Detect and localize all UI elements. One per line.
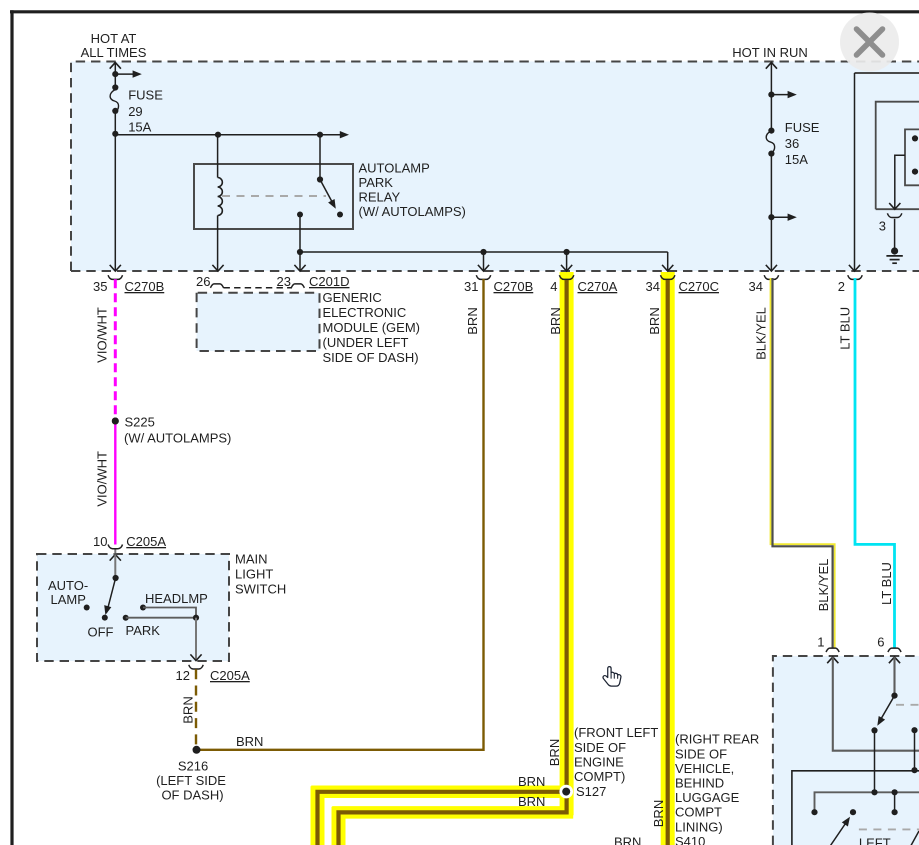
- svg-text:SIDE OF DASH): SIDE OF DASH): [323, 350, 419, 365]
- svg-text:12: 12: [176, 668, 190, 683]
- svg-text:2: 2: [838, 279, 845, 294]
- svg-text:BEHIND: BEHIND: [675, 776, 724, 791]
- svg-text:C270A: C270A: [578, 279, 618, 294]
- svg-text:LT BLU: LT BLU: [879, 562, 894, 605]
- svg-text:31: 31: [464, 279, 478, 294]
- svg-text:MODULE (GEM): MODULE (GEM): [323, 320, 421, 335]
- svg-text:34: 34: [646, 279, 660, 294]
- svg-text:LINING): LINING): [675, 819, 723, 834]
- svg-text:(W/ AUTOLAMPS): (W/ AUTOLAMPS): [359, 204, 466, 219]
- svg-text:BRN: BRN: [651, 800, 666, 827]
- svg-text:AUTOLAMP: AUTOLAMP: [359, 160, 430, 175]
- svg-text:BRN: BRN: [518, 774, 545, 789]
- svg-text:35: 35: [93, 279, 107, 294]
- svg-text:LUGGAGE: LUGGAGE: [675, 790, 740, 805]
- svg-text:HOT AT: HOT AT: [91, 31, 137, 46]
- svg-text:BLK/YEL: BLK/YEL: [816, 559, 831, 612]
- svg-text:BLK/YEL: BLK/YEL: [754, 307, 769, 360]
- svg-text:BRN: BRN: [614, 835, 641, 845]
- svg-text:BRN: BRN: [181, 696, 196, 723]
- svg-text:C205A: C205A: [210, 668, 250, 683]
- svg-text:6: 6: [877, 635, 884, 650]
- svg-text:(UNDER LEFT: (UNDER LEFT: [323, 335, 409, 350]
- svg-text:23: 23: [277, 274, 291, 289]
- svg-text:34: 34: [749, 279, 763, 294]
- svg-text:C205A: C205A: [126, 534, 166, 549]
- svg-text:26: 26: [196, 274, 210, 289]
- svg-text:SIDE OF: SIDE OF: [574, 740, 626, 755]
- svg-text:29: 29: [128, 104, 142, 119]
- svg-text:15A: 15A: [785, 152, 808, 167]
- svg-text:BRN: BRN: [518, 794, 545, 809]
- svg-text:BRN: BRN: [547, 739, 562, 766]
- svg-text:LT BLU: LT BLU: [838, 307, 853, 350]
- svg-text:(W/ AUTOLAMPS): (W/ AUTOLAMPS): [124, 431, 231, 446]
- svg-text:C201D: C201D: [309, 274, 349, 289]
- svg-text:C270C: C270C: [679, 279, 719, 294]
- svg-text:HOT IN RUN: HOT IN RUN: [732, 45, 808, 60]
- svg-text:1: 1: [817, 635, 824, 650]
- svg-text:15A: 15A: [128, 119, 151, 134]
- svg-text:C270B: C270B: [494, 279, 534, 294]
- svg-text:OFF: OFF: [88, 625, 114, 640]
- svg-text:AUTO-: AUTO-: [48, 578, 88, 593]
- svg-text:LIGHT: LIGHT: [235, 567, 273, 582]
- svg-text:SWITCH: SWITCH: [235, 582, 286, 597]
- svg-text:(FRONT LEFT: (FRONT LEFT: [574, 725, 658, 740]
- svg-text:(LEFT SIDE: (LEFT SIDE: [156, 773, 226, 788]
- svg-text:S127: S127: [576, 784, 606, 799]
- svg-text:10: 10: [93, 534, 107, 549]
- svg-text:GENERIC: GENERIC: [323, 290, 382, 305]
- svg-text:C270B: C270B: [125, 279, 165, 294]
- svg-text:HEADLMP: HEADLMP: [145, 591, 208, 606]
- svg-text:LAMP: LAMP: [51, 592, 86, 607]
- svg-text:4: 4: [550, 279, 557, 294]
- svg-text:BRN: BRN: [647, 307, 662, 334]
- svg-text:ENGINE: ENGINE: [574, 755, 624, 770]
- svg-text:S410: S410: [675, 834, 705, 845]
- svg-text:BRN: BRN: [236, 734, 263, 749]
- svg-text:ALL TIMES: ALL TIMES: [81, 45, 147, 60]
- svg-text:PARK: PARK: [359, 175, 394, 190]
- svg-text:PARK: PARK: [126, 623, 161, 638]
- svg-text:BRN: BRN: [548, 307, 563, 334]
- svg-text:S216: S216: [178, 759, 208, 774]
- svg-text:VIO/WHT: VIO/WHT: [95, 307, 110, 363]
- svg-text:3: 3: [879, 219, 886, 234]
- svg-text:(RIGHT REAR: (RIGHT REAR: [675, 732, 759, 747]
- svg-text:OF DASH): OF DASH): [161, 788, 223, 803]
- svg-text:MAIN: MAIN: [235, 552, 268, 567]
- svg-text:LEFT: LEFT: [859, 836, 891, 845]
- svg-text:FUSE: FUSE: [785, 120, 820, 135]
- svg-text:COMPT: COMPT: [675, 805, 722, 820]
- svg-text:FUSE: FUSE: [128, 88, 163, 103]
- svg-text:S225: S225: [125, 415, 155, 430]
- svg-text:SIDE OF: SIDE OF: [675, 746, 727, 761]
- svg-text:BRN: BRN: [465, 307, 480, 334]
- svg-text:36: 36: [785, 136, 799, 151]
- svg-text:ELECTRONIC: ELECTRONIC: [323, 305, 407, 320]
- svg-text:VEHICLE,: VEHICLE,: [675, 761, 734, 776]
- svg-text:VIO/WHT: VIO/WHT: [95, 451, 110, 507]
- svg-text:COMPT): COMPT): [574, 769, 625, 784]
- svg-text:RELAY: RELAY: [359, 189, 401, 204]
